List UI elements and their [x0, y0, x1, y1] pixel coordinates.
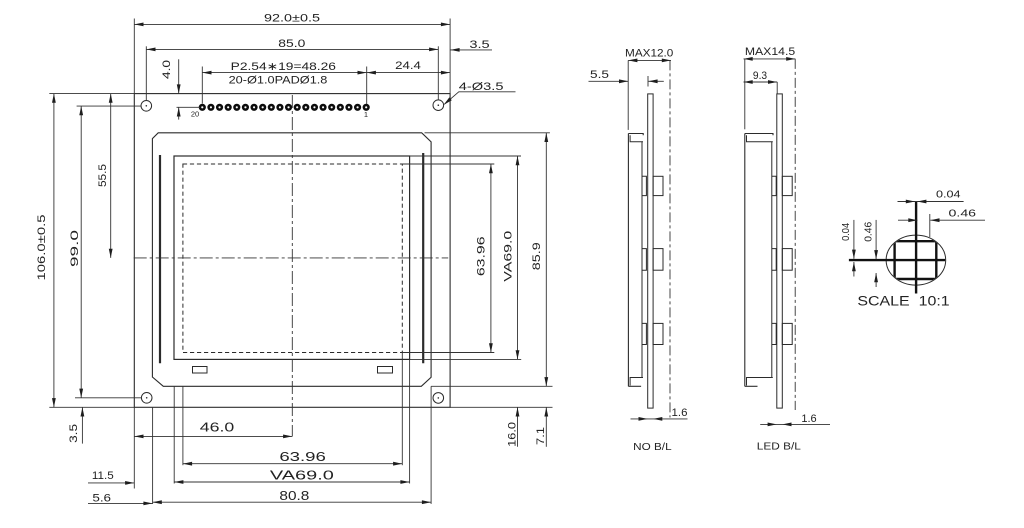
- sv1 PCB edge: [648, 94, 653, 408]
- ext hole TL to left: [77, 105, 141, 107]
- svg-text:46.0: 46.0: [200, 421, 235, 435]
- bezel tab hole right: [378, 367, 393, 374]
- svg-text:4-Ø3.5: 4-Ø3.5: [459, 81, 504, 93]
- dim VA69.0 vertical: [517, 156, 519, 359]
- ext PCB left edge down: [133, 407, 135, 488]
- svg-text:MAX14.5: MAX14.5: [745, 46, 795, 58]
- ext pin1 up: [366, 67, 368, 105]
- dim 0.04 left: [853, 220, 855, 259]
- svg-text:MAX12.0: MAX12.0: [625, 48, 673, 60]
- dim 3.5 bottom left leader: [81, 407, 83, 443]
- sv1 back centerline: [669, 60, 671, 417]
- dim 63.96 bottom: [183, 463, 402, 465]
- svg-text:99.0: 99.0: [69, 230, 81, 267]
- sv2 wall crimp 3: [772, 323, 776, 344]
- side view LED B/L: [745, 59, 795, 410]
- right elastomer bar: [422, 153, 424, 363]
- svg-text:85.9: 85.9: [531, 242, 543, 270]
- dim 0.04 top: [898, 201, 964, 203]
- dim 85.0: [146, 48, 438, 50]
- svg-text:1: 1: [364, 110, 368, 119]
- svg-text:0.04: 0.04: [841, 223, 852, 241]
- svg-text:5.6: 5.6: [92, 493, 111, 505]
- ext PCB top-left corner up: [133, 19, 135, 94]
- dim 1.6 sv2: [760, 423, 830, 425]
- dim 7.1 leader: [545, 407, 547, 447]
- ext VA left down: [173, 386, 175, 483]
- svg-text:63.96: 63.96: [279, 450, 326, 464]
- svg-text:LED B/L: LED B/L: [757, 442, 802, 453]
- dim 3.5 top right: [450, 49, 492, 51]
- svg-text:24.4: 24.4: [395, 60, 421, 72]
- svg-text:VA69.0: VA69.0: [502, 231, 514, 282]
- dim 5.6: [88, 502, 153, 504]
- ext PCB top-right corner up: [449, 19, 451, 94]
- dim 55.5: [110, 94, 112, 258]
- sv2 back centerline: [794, 59, 796, 410]
- sv1 rear tab 2: [653, 249, 663, 271]
- svg-text:20: 20: [191, 109, 199, 118]
- detail grid center horizontal: [849, 259, 945, 261]
- svg-text:SCALE 10:1: SCALE 10:1: [857, 294, 949, 309]
- ext bezel left edge down: [152, 407, 154, 504]
- side view NO B/L: [628, 60, 670, 417]
- svg-text:0.46: 0.46: [949, 208, 977, 219]
- sv1 rear tab 1: [653, 176, 663, 195]
- dim 99.0: [80, 106, 82, 398]
- dim 0.46 top: [898, 219, 918, 221]
- sv2 PCB edge: [777, 94, 783, 408]
- callout 4-O3.5 leader: [444, 92, 515, 105]
- dim 16.0 leader: [517, 407, 519, 447]
- svg-text:NO B/L: NO B/L: [633, 442, 672, 453]
- sv1 bezel front face: [627, 134, 629, 387]
- svg-text:55.5: 55.5: [97, 164, 109, 187]
- mounting holes 4-O3.5: [141, 101, 152, 112]
- ext bezel right edge down: [430, 386, 432, 504]
- svg-text:80.8: 80.8: [279, 489, 309, 503]
- svg-text:5.5: 5.5: [590, 69, 609, 81]
- horizontal centerline: [134, 257, 449, 259]
- ext AA bottom to right: [402, 352, 494, 354]
- dim VA69.0 bottom: [174, 481, 409, 483]
- detail circle: [886, 235, 946, 285]
- PCB outline 92.0x106.0: [134, 94, 450, 408]
- ext hole BL to left: [75, 397, 141, 399]
- svg-text:3.5: 3.5: [469, 39, 489, 51]
- sv2 side wall: [771, 142, 773, 378]
- dim 46.0: [134, 435, 292, 437]
- svg-text:9.3: 9.3: [753, 70, 767, 82]
- ext pin20 up: [201, 67, 203, 104]
- svg-text:16.0: 16.0: [507, 422, 519, 447]
- ext bezel bottom to right: [431, 385, 552, 387]
- viewing area window VA69.0: [174, 156, 410, 359]
- ext hole TL up: [145, 46, 147, 100]
- svg-text:4.0: 4.0: [161, 60, 173, 79]
- dim 63.96 vertical: [490, 164, 492, 353]
- dim 80.8 bottom: [153, 501, 432, 503]
- dim 0.46 left: [875, 220, 877, 259]
- dim MAX14.5: [744, 58, 796, 60]
- dim P2.54*19=48.26 / 24.4 line: [202, 72, 450, 74]
- dim 9.3: [744, 81, 778, 83]
- bezel tab hole left: [193, 367, 208, 374]
- pin header pads 20-O1.0 PAD O1.8: [200, 105, 369, 110]
- sv2 rear tab 1: [782, 176, 792, 195]
- sv1 side wall: [641, 142, 643, 378]
- detail grid center vertical: [915, 202, 917, 294]
- svg-text:P2.54∗19=48.26: P2.54∗19=48.26: [231, 61, 336, 73]
- dim MAX12.0: [628, 59, 671, 61]
- svg-text:1.6: 1.6: [672, 407, 688, 419]
- sv2 rear tab 2: [782, 249, 792, 271]
- sv2 wall crimp 1: [772, 176, 776, 195]
- ext VA right down: [409, 359, 411, 483]
- dim 11.5: [88, 482, 134, 484]
- sv1 rear tab 3: [653, 323, 663, 344]
- ext bezel top to right: [425, 132, 550, 134]
- sv2 rear tab 3: [782, 323, 792, 344]
- vertical centerline: [291, 95, 293, 436]
- ext VA top to right: [410, 155, 521, 157]
- sv2 bottom hook: [747, 378, 773, 386]
- sv2 bezel front face: [744, 134, 746, 387]
- active area dashed rect 63.96: [183, 164, 402, 353]
- sv1 wall crimp 2: [642, 249, 646, 271]
- dim 5.5: [589, 80, 629, 82]
- svg-text:0.04: 0.04: [936, 190, 961, 201]
- ext PCB top to left: [49, 93, 134, 95]
- sv1 top hook: [628, 134, 643, 136]
- svg-text:20-Ø1.0PADØ1.8: 20-Ø1.0PADØ1.8: [229, 75, 328, 87]
- ext AA top to right: [402, 163, 494, 165]
- sv1 bottom hook: [630, 378, 643, 386]
- svg-text:85.0: 85.0: [278, 38, 305, 50]
- sv2 wall crimp 2: [772, 249, 776, 271]
- ext AA right down: [401, 353, 403, 466]
- left elastomer bar: [159, 155, 161, 363]
- ext VA bottom to right: [410, 358, 522, 360]
- dim 85.9 vertical: [545, 133, 547, 386]
- svg-text:3.5: 3.5: [68, 424, 80, 443]
- svg-text:63.96: 63.96: [475, 236, 487, 276]
- dim 92.0+-0.5: [134, 23, 450, 25]
- ext PCB bottom to right: [450, 406, 552, 408]
- svg-text:7.1: 7.1: [535, 427, 547, 445]
- ext PCB bottom to left: [49, 406, 134, 408]
- sv1 wall crimp 3: [642, 323, 646, 344]
- svg-text:92.0±0.5: 92.0±0.5: [264, 12, 320, 24]
- ext hole TR up: [437, 46, 439, 99]
- svg-text:106.0±0.5: 106.0±0.5: [36, 215, 48, 281]
- svg-text:11.5: 11.5: [92, 470, 114, 482]
- sv2 top hook: [745, 134, 773, 136]
- svg-text:VA69.0: VA69.0: [270, 469, 334, 483]
- svg-text:1.6: 1.6: [801, 413, 816, 425]
- dim 4.0 leader: [178, 59, 180, 93]
- svg-text:0.46: 0.46: [864, 221, 875, 241]
- bezel outline 80.8x85.9 with chamfered corners: [152, 133, 431, 386]
- dim 106.0+-0.5: [53, 94, 55, 408]
- sv1 wall crimp 1: [642, 176, 646, 195]
- ext AA left down: [182, 386, 184, 465]
- dim 1.6 sv1: [631, 418, 688, 420]
